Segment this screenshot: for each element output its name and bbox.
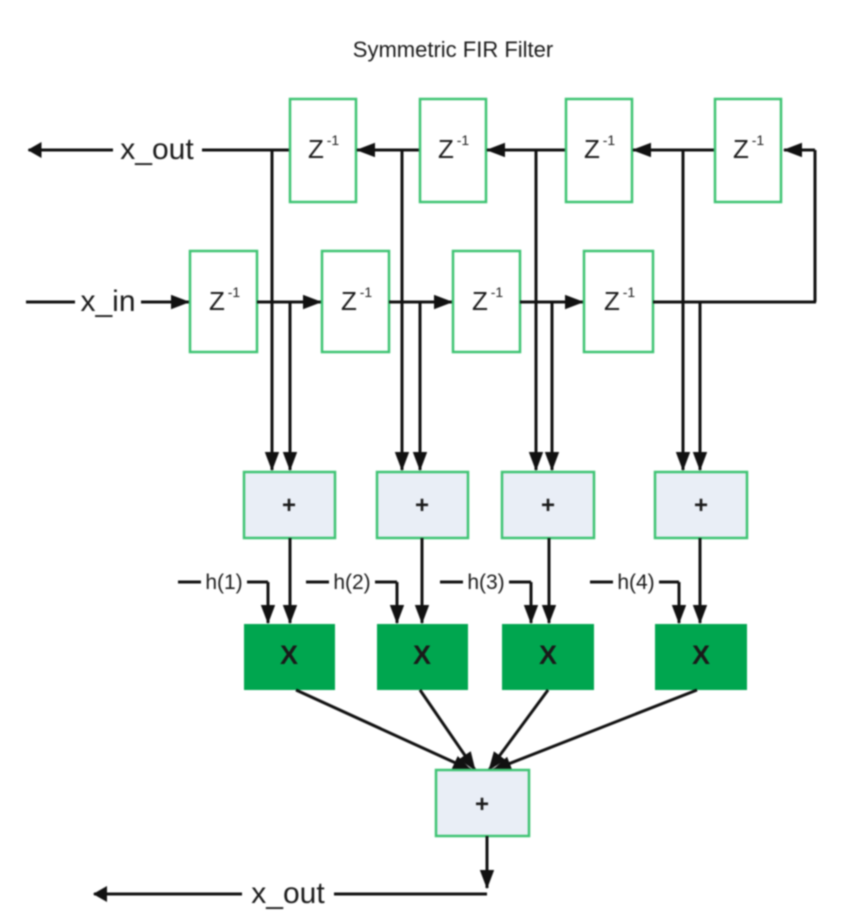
- svg-text:-1: -1: [327, 132, 340, 148]
- wire x_out left arrow (top row output): [29, 149, 291, 152]
- svg-text:+: +: [282, 492, 296, 519]
- svg-text:h(4): h(4): [617, 571, 654, 594]
- node h(2) coefficient: [306, 570, 397, 623]
- wire B3 to B4 (bottom row): [520, 301, 583, 304]
- delay Z8 (top row, block 4): [715, 99, 781, 202]
- svg-text:h(1): h(1): [205, 571, 242, 594]
- svg-text:X: X: [413, 640, 431, 670]
- multiplier M3: [502, 624, 594, 690]
- wire B4 output to feedback corner: [653, 301, 816, 304]
- svg-text:-1: -1: [603, 132, 616, 148]
- delay Z2 (bottom row, block 2): [322, 251, 389, 352]
- wire final adder output down: [486, 836, 489, 888]
- svg-text:Z: Z: [472, 286, 488, 316]
- delay Z7 (top row, block 3): [566, 99, 632, 202]
- svg-text:Z: Z: [438, 134, 454, 164]
- svg-text:Symmetric FIR Filter: Symmetric FIR Filter: [353, 37, 553, 62]
- wire tap top row col3: [535, 150, 538, 470]
- wire top row B2 to B1: [357, 149, 420, 152]
- wire A3 output to M3: [548, 538, 551, 623]
- multiplier M4: [655, 624, 747, 690]
- svg-text:-1: -1: [228, 284, 241, 300]
- svg-text:+: +: [541, 492, 555, 519]
- svg-text:Z: Z: [341, 286, 357, 316]
- wire tap bottom row col1: [289, 302, 292, 470]
- svg-text:h(2): h(2): [333, 571, 370, 594]
- wire x_out bottom: [94, 893, 487, 896]
- wire tap bottom row col2: [419, 302, 422, 470]
- wire top row B4 to B3: [633, 149, 715, 152]
- svg-text:X: X: [280, 640, 298, 670]
- svg-text:-1: -1: [752, 132, 765, 148]
- delay Z1 (bottom row, block 1): [190, 251, 257, 352]
- svg-text:X: X: [539, 640, 557, 670]
- svg-text:h(3): h(3): [467, 571, 504, 594]
- wire top row B3 to B2: [487, 149, 566, 152]
- adder A1: [244, 472, 335, 538]
- wire B2 to B3 (bottom row): [389, 301, 452, 304]
- delay Z6 (top row, block 2): [420, 99, 486, 202]
- svg-text:+: +: [694, 492, 708, 519]
- node h(1) coefficient: [178, 570, 268, 623]
- wire B1 to B2 (bottom row): [257, 301, 321, 304]
- wire tap top row col4: [682, 150, 685, 470]
- svg-text:Z: Z: [308, 134, 324, 164]
- wire M4 to final adder: [493, 690, 697, 770]
- wire A4 output to M4: [699, 538, 702, 623]
- node h(3) coefficient: [440, 570, 531, 623]
- delay Z4 (bottom row, block 4): [584, 251, 653, 352]
- node x_out label (bottom): [242, 876, 334, 910]
- delay Z3 (bottom row, block 3): [453, 251, 520, 352]
- wire tap bottom row col3: [551, 302, 554, 470]
- wire A1 output to M1: [289, 538, 292, 623]
- wire tap bottom row col4: [699, 302, 702, 470]
- node h(4) coefficient: [590, 570, 679, 623]
- svg-text:x_in: x_in: [80, 285, 135, 318]
- node x_out label (top): [113, 132, 202, 166]
- wire tap top row col1: [271, 150, 274, 470]
- multiplier M2: [377, 624, 468, 690]
- svg-text:Z: Z: [209, 286, 225, 316]
- svg-text:X: X: [692, 640, 710, 670]
- svg-text:-1: -1: [491, 284, 504, 300]
- svg-text:Z: Z: [584, 134, 600, 164]
- svg-text:x_out: x_out: [120, 133, 194, 166]
- node x_in label: [75, 284, 141, 318]
- wire tap top row col2: [401, 150, 404, 470]
- wire M3 to final adder: [489, 690, 548, 770]
- svg-text:-1: -1: [623, 284, 636, 300]
- multiplier M1: [244, 624, 335, 690]
- wire x_in input: [26, 301, 189, 304]
- wire A2 output to M2: [421, 538, 424, 623]
- svg-text:-1: -1: [457, 132, 470, 148]
- adder A3: [502, 472, 594, 538]
- svg-text:Z: Z: [733, 134, 749, 164]
- delay Z5 (top row, block 1): [290, 99, 356, 202]
- wire feedback into top row B4: [784, 149, 815, 152]
- svg-text:Z: Z: [604, 286, 620, 316]
- wire M1 to final adder: [296, 690, 471, 770]
- wire feedback vertical: [814, 150, 817, 302]
- adder A4: [655, 472, 747, 538]
- adder A2: [377, 472, 468, 538]
- adder A5 (final): [436, 770, 529, 836]
- wire M2 to final adder: [420, 690, 475, 770]
- svg-text:-1: -1: [360, 284, 373, 300]
- svg-text:x_out: x_out: [251, 877, 325, 910]
- svg-text:+: +: [415, 492, 429, 519]
- svg-text:+: +: [475, 791, 489, 818]
